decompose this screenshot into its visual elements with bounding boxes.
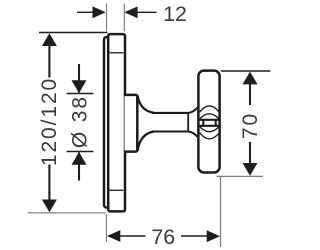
dim120 extension line top xyxy=(39,32,108,34)
handle index window right xyxy=(215,120,217,126)
dim12 line left xyxy=(77,11,96,13)
handle grip outer arc bottom xyxy=(200,133,220,139)
dim70 arrow bottom xyxy=(243,163,258,176)
dim38 stem upper xyxy=(78,64,80,93)
dim120 arrow top xyxy=(42,33,57,46)
dim120 stem lower xyxy=(48,165,50,202)
dim12 arrow left xyxy=(93,6,106,18)
svg-text:120/120: 120/120 xyxy=(38,77,61,166)
neck collar xyxy=(187,112,189,132)
stem base disc (Ø38) xyxy=(125,95,138,152)
dim76 extension line left xyxy=(105,214,107,242)
svg-text:Ø 38: Ø 38 xyxy=(68,95,91,148)
dim12 extension line left xyxy=(106,4,108,32)
dim76 arrow left xyxy=(107,230,120,242)
handle flare top xyxy=(188,107,197,113)
dim120 stem upper xyxy=(48,44,50,78)
wall flange (rear bar behind plate) xyxy=(104,37,112,207)
dim38 arrow lower (up) xyxy=(72,152,87,165)
dim120 arrow bottom xyxy=(42,200,57,213)
neck top line xyxy=(152,112,188,114)
svg-text:12: 12 xyxy=(163,2,187,26)
escutcheon plate (side view) xyxy=(108,34,125,211)
handle grip outer arc top xyxy=(200,106,220,112)
svg-text:70: 70 xyxy=(239,112,262,139)
dim76 line left xyxy=(119,235,146,237)
neck bottom line xyxy=(152,130,188,132)
dim76 arrow right xyxy=(207,230,220,242)
handle band top line xyxy=(198,119,219,121)
dim70 stem upper xyxy=(249,82,251,105)
dim38 stem lower xyxy=(78,153,80,181)
handle index window left xyxy=(202,120,204,126)
dim70 stem lower xyxy=(249,142,251,166)
dim12 arrow right xyxy=(124,6,137,18)
dim38 tick lower xyxy=(67,151,94,153)
svg-text:76: 76 xyxy=(151,225,175,249)
trumpet fillet top xyxy=(138,96,154,113)
dim12 line right xyxy=(136,11,157,13)
dim70 arrow top xyxy=(243,72,258,85)
handle body (capsule) xyxy=(198,71,219,173)
handle flare bottom xyxy=(188,132,197,138)
dim76 line right xyxy=(181,235,208,237)
trumpet fillet bottom xyxy=(138,132,154,151)
dim12 extension line right xyxy=(123,4,125,32)
dim70 extension line bottom xyxy=(217,175,264,177)
handle band bottom line xyxy=(198,125,219,127)
handle grip inner arc top xyxy=(200,114,219,119)
dim70 extension line top xyxy=(221,70,270,72)
plate corner transition line lower xyxy=(110,189,124,191)
dim76 extension line right xyxy=(220,177,222,247)
plate corner transition line upper xyxy=(110,52,124,54)
dim120 extension line bottom xyxy=(28,212,106,214)
handle grip inner arc bottom xyxy=(200,127,219,132)
dim38 arrow upper (down) xyxy=(72,80,87,93)
dim38 tick upper xyxy=(67,93,94,95)
